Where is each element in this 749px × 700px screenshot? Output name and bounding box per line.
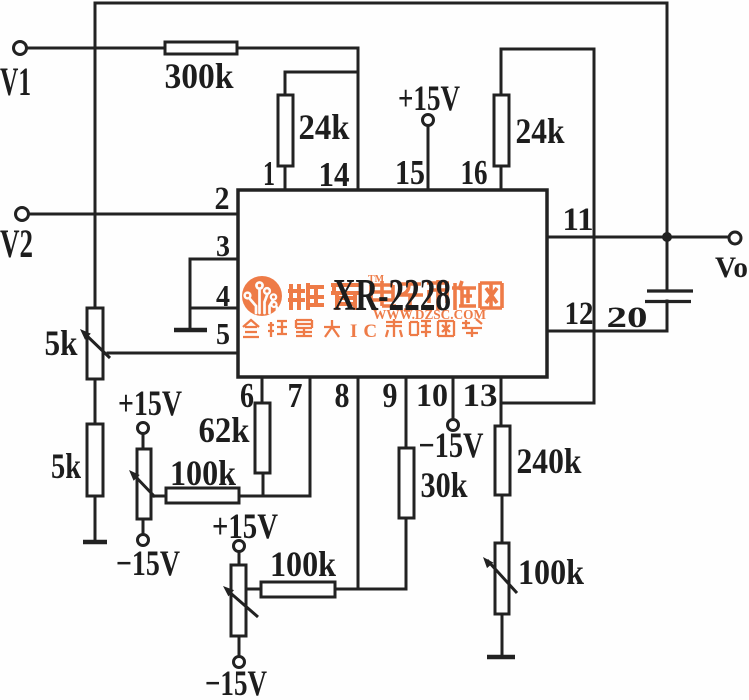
svg-text:100k: 100k: [270, 544, 336, 584]
wire pin 16 stub: [500, 166, 503, 190]
resistor 300k: [165, 42, 237, 54]
svg-text:12: 12: [565, 296, 594, 332]
arrowhead 100k-1 pot: [129, 470, 140, 481]
watermark logo circle: [242, 276, 282, 316]
wire +15V to 100k pot top: [142, 433, 145, 449]
wire capacitor bottom stub: [666, 301, 669, 331]
watermark 维库 characters: [288, 283, 360, 310]
ground below 5k: [83, 540, 107, 545]
svg-text:300k: 300k: [165, 56, 234, 96]
svg-text:15: 15: [395, 153, 425, 192]
svg-text:9: 9: [383, 376, 398, 415]
svg-text:8: 8: [335, 376, 350, 415]
wire pot2 wiper: [246, 588, 261, 591]
resistor 24k right: [494, 95, 509, 166]
wire pin 7 vertical: [309, 377, 312, 496]
svg-text:5: 5: [216, 316, 230, 351]
wire pin 13 horizontal: [501, 402, 594, 405]
op-amp IC XR-2228 body: [238, 190, 547, 377]
svg-text:14: 14: [319, 155, 350, 194]
capacitor 20 bottom plate: [645, 300, 691, 303]
terminal +15V pin15: [423, 115, 434, 126]
svg-text:+15V: +15V: [398, 78, 460, 118]
svg-text:30k: 30k: [421, 465, 468, 505]
svg-text:62k: 62k: [199, 410, 250, 450]
wire node to capacitor top: [666, 237, 669, 291]
terminal Vo: [729, 232, 741, 244]
wire pin 10 stub: [452, 377, 455, 420]
wire pin 5 to 5k pot wiper: [108, 352, 238, 355]
svg-text:−15V: −15V: [205, 663, 267, 700]
svg-text:3: 3: [216, 228, 230, 263]
ground pins 3-4: [174, 328, 207, 333]
wire 240k to 100k pot3: [501, 495, 504, 543]
wire 24k left top stub: [284, 72, 287, 95]
wire +15V to pot2 top: [238, 551, 241, 565]
svg-text:24k: 24k: [299, 107, 350, 147]
potentiometer 100k-1 body: [137, 449, 151, 519]
wire 100k-2 right to pin8 junction: [335, 588, 358, 591]
wire pin3-pin4 bracket: [189, 259, 192, 330]
terminal -15V pot1: [138, 535, 149, 546]
svg-text:V1: V1: [0, 59, 31, 104]
wire pin 6 stub: [261, 377, 264, 403]
terminal +15V pot1: [138, 423, 149, 434]
wire pot2 bottom to -15V: [238, 636, 241, 656]
wire pin 3: [190, 258, 238, 261]
terminal V2: [16, 208, 29, 221]
wire pin 9 vertical: [405, 377, 408, 448]
wire 30k bottom vertical: [405, 518, 408, 589]
svg-text:6: 6: [240, 376, 254, 415]
svg-text:13: 13: [463, 378, 498, 414]
svg-text:7: 7: [288, 376, 303, 415]
arrowhead 100k-2 pot: [223, 586, 234, 596]
wire 100k pot wiper: [153, 495, 166, 498]
svg-text:2: 2: [215, 181, 230, 217]
svg-text:10: 10: [416, 378, 448, 414]
svg-text:4: 4: [216, 278, 230, 313]
svg-text:20: 20: [607, 301, 648, 334]
svg-text:100k: 100k: [518, 552, 584, 592]
wire 24k right top stub: [500, 49, 503, 95]
wire pin 12 to capacitor: [547, 330, 667, 333]
svg-text:11: 11: [563, 202, 594, 238]
resistor 30k: [399, 448, 414, 518]
resistor 100k bottom horizontal: [261, 582, 335, 597]
potentiometer 100k-2 body: [231, 565, 246, 636]
wire junction to 30k bottom: [358, 588, 406, 591]
wire pin 8 vertical: [357, 377, 360, 589]
wire 24k right top horizontal: [501, 48, 594, 51]
svg-text:240k: 240k: [517, 441, 582, 481]
wire 100k right to 62k and pin7: [239, 495, 310, 498]
watermark 电子市场网 characters: [371, 280, 502, 310]
wire right vertical to pin13 net: [593, 49, 596, 403]
svg-text:V2: V2: [0, 221, 33, 266]
svg-text:+15V: +15V: [118, 383, 182, 423]
wire 62k bottom stub: [262, 473, 265, 496]
resistor 100k left horizontal: [166, 488, 239, 503]
potentiometer 100k-3 body: [495, 543, 509, 614]
capacitor 20 top plate: [647, 289, 693, 292]
svg-text:100k: 100k: [170, 453, 236, 493]
terminal -15V pin10: [448, 420, 459, 431]
wire right border down to Vo node: [666, 3, 669, 237]
terminal V1: [14, 42, 27, 55]
ground below pot3: [487, 655, 515, 660]
potentiometer 100k-3 wiper arrow: [487, 560, 517, 593]
svg-text:+15V: +15V: [212, 506, 278, 546]
terminal -15V pot2: [234, 657, 245, 668]
wire top border: [95, 2, 667, 5]
svg-text:IC: IC: [350, 321, 383, 342]
svg-text:−15V: −15V: [116, 543, 180, 583]
svg-text:5k: 5k: [45, 323, 78, 363]
wire pin 4: [190, 307, 238, 310]
svg-text:1: 1: [263, 154, 275, 193]
potentiometer 5k body: [87, 308, 103, 379]
wire V2 to pin 2: [29, 213, 238, 216]
resistor 62k: [255, 403, 270, 473]
potentiometer 100k-2 wiper arrow: [227, 590, 258, 617]
resistor 5k lower: [87, 424, 103, 496]
wire V1 to 300k: [27, 47, 165, 50]
node Vo junction dot: [662, 232, 672, 242]
wire left border down to 5k pot: [94, 3, 97, 308]
wire 300k to pin14 corner: [237, 47, 358, 50]
svg-text:Vo: Vo: [715, 251, 748, 284]
arrowhead 5k pot: [80, 329, 91, 340]
svg-text:24k: 24k: [516, 111, 565, 151]
svg-text:−15V: −15V: [419, 425, 484, 465]
potentiometer 5k wiper arrow: [84, 333, 110, 358]
wire 5k pot bottom to 5k resistor: [94, 379, 97, 424]
wire 5k resistor to ground: [94, 496, 97, 541]
wire +15V to pin 15: [427, 126, 430, 190]
resistor 240k: [495, 426, 510, 495]
wire pin 14 drop: [357, 48, 360, 190]
svg-text:5k: 5k: [51, 446, 81, 486]
watermark slogan 全球最大IC采购网站: [243, 319, 482, 337]
wire 100k pot bottom to -15V: [142, 519, 145, 535]
terminal +15V pot2: [234, 541, 245, 552]
wire pot3 bottom to ground: [501, 614, 504, 656]
svg-text:16: 16: [461, 153, 488, 192]
wire 24k left top horizontal: [285, 71, 358, 74]
potentiometer 100k-1 wiper arrow: [133, 474, 155, 497]
wire pin 11 to Vo: [547, 236, 729, 239]
resistor 24k left: [278, 95, 293, 166]
wire pin 1 stub: [284, 166, 287, 190]
wire pin 13 vertical: [500, 377, 503, 426]
arrowhead 100k-3 pot: [483, 557, 493, 568]
